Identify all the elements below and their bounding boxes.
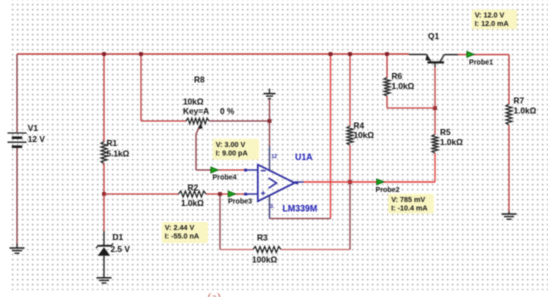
svg-text:Probe4: Probe4 [213, 174, 237, 182]
ground below V1 [16, 244, 18, 249]
wire +12V top rail [17, 53, 409, 55]
probe Probe3 arrow [228, 191, 235, 197]
svg-text:R1: R1 [107, 138, 118, 148]
transistor Q1 PNP [434, 67, 436, 108]
junction rail/R4 [348, 52, 352, 56]
op-amp U1A LM339M [258, 165, 295, 202]
wire R3 to output node [281, 249, 350, 251]
junction rail/VCC branch [329, 52, 333, 56]
svg-text:12 V: 12 V [28, 134, 46, 144]
wire node to pin12 [269, 121, 271, 146]
svg-text:0 %: 0 % [220, 106, 235, 116]
svg-text:R5: R5 [440, 127, 451, 137]
probe Probe1 readout [472, 10, 518, 30]
svg-text:R7: R7 [514, 95, 525, 105]
svg-text:I: 12.0 mA: I: 12.0 mA [475, 19, 509, 28]
svg-text:Probe3: Probe3 [228, 198, 252, 206]
wire zener node to R2 [104, 193, 179, 195]
wire to R3 [220, 249, 253, 251]
ground below D1 [103, 276, 105, 279]
wire up to R5 [434, 153, 436, 182]
svg-text:LM339M: LM339M [283, 204, 318, 214]
junction +input/feedback [218, 192, 222, 196]
svg-text:100kΩ: 100kΩ [252, 255, 277, 265]
svg-text:I: -10.4 mA: I: -10.4 mA [391, 203, 427, 212]
probe Probe2 readout [388, 194, 434, 214]
probe Probe4 arrow [211, 167, 218, 173]
op-amp input leads [246, 169, 258, 171]
ground above op-amp [269, 89, 271, 94]
svg-text:1.0kΩ: 1.0kΩ [514, 106, 537, 116]
wire ground to R8 node [269, 99, 271, 121]
svg-text:Key=A: Key=A [183, 106, 209, 116]
probe Probe3 readout [162, 222, 209, 243]
resistor R2 1.0k [179, 191, 207, 197]
battery V1 [16, 54, 18, 132]
resistor R1 5.1k [103, 54, 105, 142]
op-amp output lead [295, 181, 304, 183]
probe Probe4 readout [213, 139, 260, 160]
resistor R5 1.0k [432, 135, 438, 154]
resistor R4 10k [349, 54, 351, 127]
svg-text:Probe2: Probe2 [376, 186, 400, 194]
probe Probe1 arrow [467, 51, 474, 57]
svg-text:D1: D1 [113, 232, 124, 242]
junction output/R4/R3 [348, 180, 352, 184]
wire VCC to pin3 [270, 218, 331, 220]
wire collector [458, 54, 509, 56]
junction R5/R6/Q1 base [433, 106, 437, 110]
ground below R7 [508, 212, 510, 215]
svg-text:R8: R8 [194, 75, 205, 85]
wire R2 to +input [206, 193, 246, 195]
svg-text:V1: V1 [28, 123, 39, 133]
svg-text:R2: R2 [188, 183, 199, 193]
probe Probe2 arrow [377, 179, 384, 185]
svg-text:10kΩ: 10kΩ [354, 130, 375, 140]
junction rail/R8 [139, 52, 143, 56]
resistor R6 1.0k [386, 54, 388, 78]
junction R1/D1/R2 node [102, 192, 106, 196]
resistor R7 1.0k [508, 55, 510, 105]
wire to -input [214, 169, 246, 171]
svg-text:(a): (a) [208, 290, 221, 297]
wire output [304, 181, 436, 183]
svg-text:R3: R3 [257, 233, 268, 243]
svg-text:I: -55.0 nA: I: -55.0 nA [165, 232, 199, 241]
svg-text:R6: R6 [392, 71, 403, 81]
svg-text:Q1: Q1 [428, 31, 439, 41]
op-amp pin 3 lead [269, 196, 271, 219]
svg-text:I: 9.00 pA: I: 9.00 pA [216, 148, 248, 157]
zener diode D1 2.5V [103, 194, 105, 231]
junction rail/R6 [385, 52, 389, 56]
svg-text:2.5 V: 2.5 V [111, 244, 131, 254]
svg-text:Probe1: Probe1 [469, 59, 493, 67]
wire VCC down [330, 54, 332, 219]
wire R6 to base node [387, 107, 435, 109]
wire Q1 emitter lead [409, 53, 426, 55]
svg-text:1.0kΩ: 1.0kΩ [440, 137, 463, 147]
junction R8/ground/pin12 [268, 119, 272, 123]
svg-text:1.0kΩ: 1.0kΩ [181, 198, 204, 208]
svg-text:U1A: U1A [295, 152, 313, 162]
junction rail/R1 [102, 52, 106, 56]
wire feedback down [219, 194, 221, 250]
svg-text:5.1kΩ: 5.1kΩ [107, 149, 130, 159]
potentiometer R8 10k Key=A [140, 54, 142, 121]
resistor R3 100k [253, 247, 281, 253]
svg-text:12: 12 [271, 154, 277, 160]
R8 wiper arrow [197, 123, 203, 129]
wire wiper right [196, 169, 214, 171]
wire wiper down [195, 134, 197, 170]
svg-text:1.0kΩ: 1.0kΩ [392, 81, 415, 91]
svg-text:3.: 3. [270, 204, 275, 210]
wire feedback up to output [349, 182, 351, 250]
op-amp pin 12 lead [269, 146, 271, 171]
